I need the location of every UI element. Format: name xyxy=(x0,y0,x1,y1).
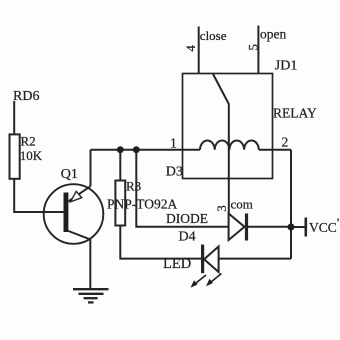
svg-text:R3: R3 xyxy=(126,179,141,194)
svg-text:RELAY: RELAY xyxy=(273,106,317,121)
svg-text:10K: 10K xyxy=(20,148,43,163)
svg-text:1: 1 xyxy=(170,136,177,151)
svg-text:R2: R2 xyxy=(21,134,36,149)
svg-text:D3: D3 xyxy=(166,165,183,180)
svg-text:D4: D4 xyxy=(179,230,196,245)
svg-text:RD6: RD6 xyxy=(13,89,39,104)
svg-text:DIODE: DIODE xyxy=(166,211,208,226)
svg-text:close: close xyxy=(200,28,227,43)
svg-text:open: open xyxy=(260,27,286,42)
svg-text:com: com xyxy=(231,197,253,212)
svg-text:4: 4 xyxy=(183,45,198,52)
svg-text:2: 2 xyxy=(282,135,289,150)
svg-text:PNP-TO92A: PNP-TO92A xyxy=(107,197,178,212)
svg-text:VCC: VCC xyxy=(309,220,337,235)
svg-text:Q1: Q1 xyxy=(61,167,78,182)
svg-text:’: ’ xyxy=(336,215,340,229)
svg-text:LED: LED xyxy=(163,256,191,272)
svg-text:JD1: JD1 xyxy=(275,59,298,74)
svg-text:5: 5 xyxy=(246,44,261,51)
svg-text:3: 3 xyxy=(214,205,229,212)
